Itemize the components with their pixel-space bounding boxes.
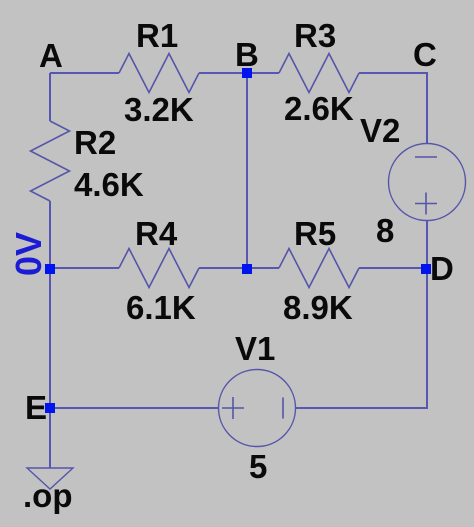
V1 minus sign (vertical) [282, 398, 284, 419]
wire mid node to R5 [247, 267, 279, 269]
node B junction square [242, 68, 252, 78]
node D junction square [421, 264, 431, 274]
wire node D down to bottom row [296, 268, 428, 408]
svg-text:E: E [25, 389, 47, 426]
svg-text:B: B [235, 36, 259, 73]
voltage source V1 circle [219, 370, 296, 447]
wire left column: A down to R2 top [49, 73, 51, 121]
svg-text:V2: V2 [360, 112, 400, 149]
svg-text:A: A [39, 37, 63, 74]
resistor R2 (vertical) [31, 121, 70, 201]
wire top-left: A corner to R1 [50, 72, 119, 74]
svg-text:.op: .op [23, 477, 72, 514]
wire R5 to node D [359, 267, 427, 269]
svg-text:R1: R1 [136, 17, 178, 54]
wire E node down to ground [49, 408, 51, 468]
svg-text:8.9K: 8.9K [283, 289, 353, 326]
resistor R3 [279, 54, 359, 93]
svg-text:6.1K: 6.1K [126, 289, 196, 326]
svg-text:C: C [413, 36, 437, 73]
svg-text:R2: R2 [74, 124, 116, 161]
svg-text:D: D [430, 250, 454, 287]
svg-text:0V: 0V [8, 232, 49, 276]
wire R4 to mid node [199, 267, 247, 269]
resistor R4 [119, 249, 199, 288]
wire R3 to C corner, down to V2 [359, 73, 427, 144]
wire R2 bottom to 0V node [49, 201, 51, 268]
V2 plus sign [415, 193, 437, 215]
node 0V junction square [45, 264, 55, 274]
svg-text:R3: R3 [294, 17, 336, 54]
wire E node to V1 [50, 407, 219, 409]
resistor R5 [279, 249, 359, 288]
V2 minus sign [415, 156, 437, 158]
resistor R1 [119, 54, 199, 93]
svg-text:V1: V1 [235, 330, 275, 367]
mid junction square [242, 264, 252, 274]
voltage source V2 circle [389, 144, 466, 221]
ground [27, 468, 73, 489]
svg-text:8: 8 [376, 212, 394, 249]
wire node B to R3 [247, 72, 279, 74]
wire node B down to mid node [246, 73, 248, 268]
svg-text:4.6K: 4.6K [74, 166, 144, 203]
wire V2 bottom to node D [426, 221, 428, 269]
svg-text:3.2K: 3.2K [124, 91, 194, 128]
wire mid row: 0V node to R4 [50, 267, 119, 269]
svg-text:R4: R4 [135, 215, 178, 252]
node E junction square [45, 403, 55, 413]
V1 plus sign [222, 397, 244, 419]
svg-text:R5: R5 [294, 215, 336, 252]
wire 0V node down to E node [49, 268, 51, 408]
svg-text:2.6K: 2.6K [284, 90, 354, 127]
svg-text:5: 5 [249, 448, 267, 485]
wire R1 to node B [199, 72, 247, 74]
